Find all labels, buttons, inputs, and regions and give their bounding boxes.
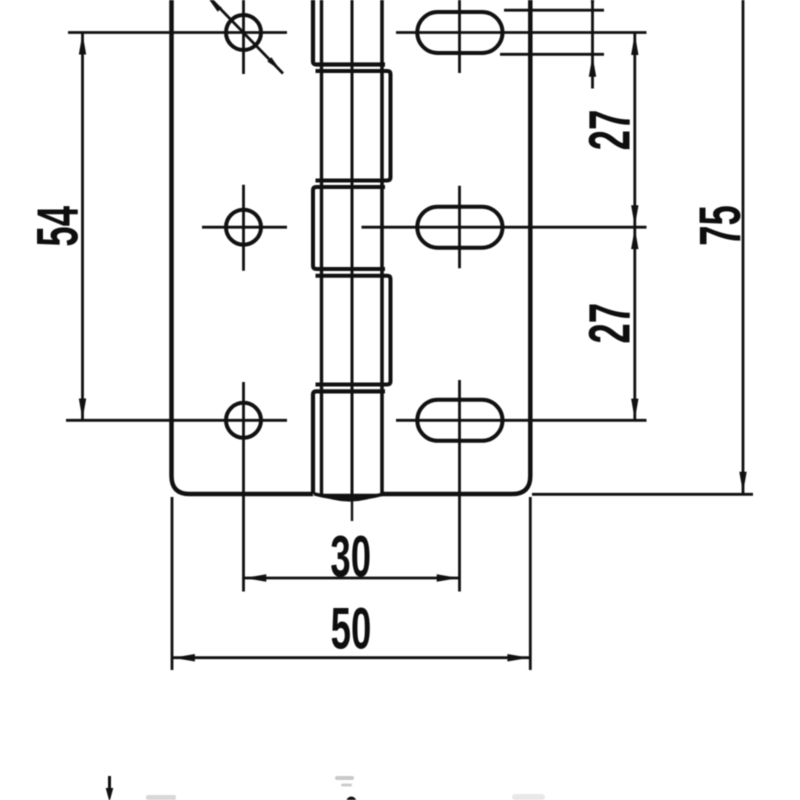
knuckle inner line right bbox=[380, 0, 384, 494]
arrow 54 bottom bbox=[79, 399, 86, 420]
arrow 75 bottom bbox=[739, 472, 746, 493]
dimension line 54 bbox=[81, 33, 84, 421]
centerline H1 horizontal / 54 top extension bbox=[68, 31, 287, 34]
cut mark blob bottom center bbox=[346, 797, 356, 800]
arrow 50 left bbox=[173, 654, 195, 662]
cut mark line bottom left bbox=[108, 776, 111, 789]
centerline S3 horizontal / 27 bottom extension bbox=[396, 419, 647, 422]
hole H1 diagonal leader line bbox=[206, 0, 283, 74]
knuckle segment A3 outline bbox=[313, 391, 385, 494]
arrow slot width up bbox=[589, 56, 596, 77]
centerline H1 vertical bbox=[242, 0, 245, 74]
centerline S2 horizontal / 27 middle extension bbox=[362, 226, 647, 229]
svg-text:27: 27 bbox=[578, 110, 643, 151]
centerline S3 vertical / 30 right extension bbox=[458, 380, 461, 592]
centerline H3 horizontal / 54 bottom extension bbox=[66, 419, 287, 422]
centerline S1 horizontal / 27 top extension bbox=[396, 31, 647, 34]
arrow slot width down bbox=[589, 0, 596, 10]
dimension line 50 bbox=[173, 656, 530, 659]
arrow 27 bottom bbox=[631, 399, 638, 420]
50 left extension line bbox=[171, 497, 174, 670]
arrow 54 top bbox=[79, 34, 86, 55]
svg-text:54: 54 bbox=[26, 206, 91, 247]
cut mark arrow bottom left bbox=[106, 788, 114, 800]
slot width extension bottom bbox=[500, 53, 604, 56]
svg-text:75: 75 bbox=[689, 205, 754, 246]
arrow 27 middle up bbox=[631, 228, 638, 249]
faint smudge 4 bbox=[512, 794, 545, 800]
screw hole H2 bbox=[226, 210, 261, 245]
slot hole S1 bbox=[417, 12, 502, 53]
arrow 30 right bbox=[437, 574, 459, 582]
dimension line 75 bbox=[742, 0, 745, 493]
centerline S2 vertical bbox=[458, 186, 461, 269]
knuckle inner line left bbox=[320, 0, 323, 494]
screw hole H3 bbox=[226, 403, 261, 438]
centerline S1 vertical bbox=[458, 0, 461, 73]
knuckle segment A2 outline bbox=[313, 187, 385, 269]
faint smudge 2 bbox=[341, 784, 352, 787]
arrow diagonal lower bbox=[267, 57, 281, 71]
knuckle segment B1 outline bbox=[316, 71, 391, 181]
right leaf plate outline bbox=[382, 0, 530, 494]
arrow diagonal upper bbox=[208, 0, 222, 12]
barrel bottom arc bbox=[316, 494, 383, 502]
arrow 50 right bbox=[507, 654, 529, 662]
faint smudge 3 bbox=[146, 795, 176, 800]
slot width dimension line bbox=[591, 0, 594, 89]
arrow 27 top bbox=[631, 34, 638, 55]
left leaf plate outline bbox=[172, 0, 314, 494]
knuckle pin centerline bbox=[351, 0, 354, 494]
slot width extension top bbox=[504, 9, 604, 12]
faint smudge 1 bbox=[335, 776, 354, 780]
centerline H2 vertical bbox=[242, 185, 245, 271]
svg-text:30: 30 bbox=[330, 525, 371, 590]
centerline H2 horizontal bbox=[202, 226, 287, 229]
knuckle segment B2 outline bbox=[316, 276, 391, 385]
75 bottom extension line bbox=[532, 493, 753, 496]
arrow 30 left bbox=[244, 574, 266, 582]
slot hole S2 bbox=[417, 207, 502, 248]
dimension line 30 bbox=[244, 577, 458, 580]
svg-text:50: 50 bbox=[331, 597, 372, 662]
dimension line 27 pair bbox=[633, 34, 636, 421]
screw hole H1 bbox=[226, 15, 261, 50]
50 right extension line bbox=[529, 497, 532, 670]
knuckle segment A1 outline bbox=[313, 0, 385, 65]
arrow 27 middle down bbox=[631, 205, 638, 226]
pin centerline below barrel bbox=[351, 494, 353, 521]
svg-text:27: 27 bbox=[578, 303, 643, 344]
centerline H3 vertical / 30 left extension bbox=[242, 382, 245, 592]
slot hole S3 bbox=[417, 400, 502, 441]
